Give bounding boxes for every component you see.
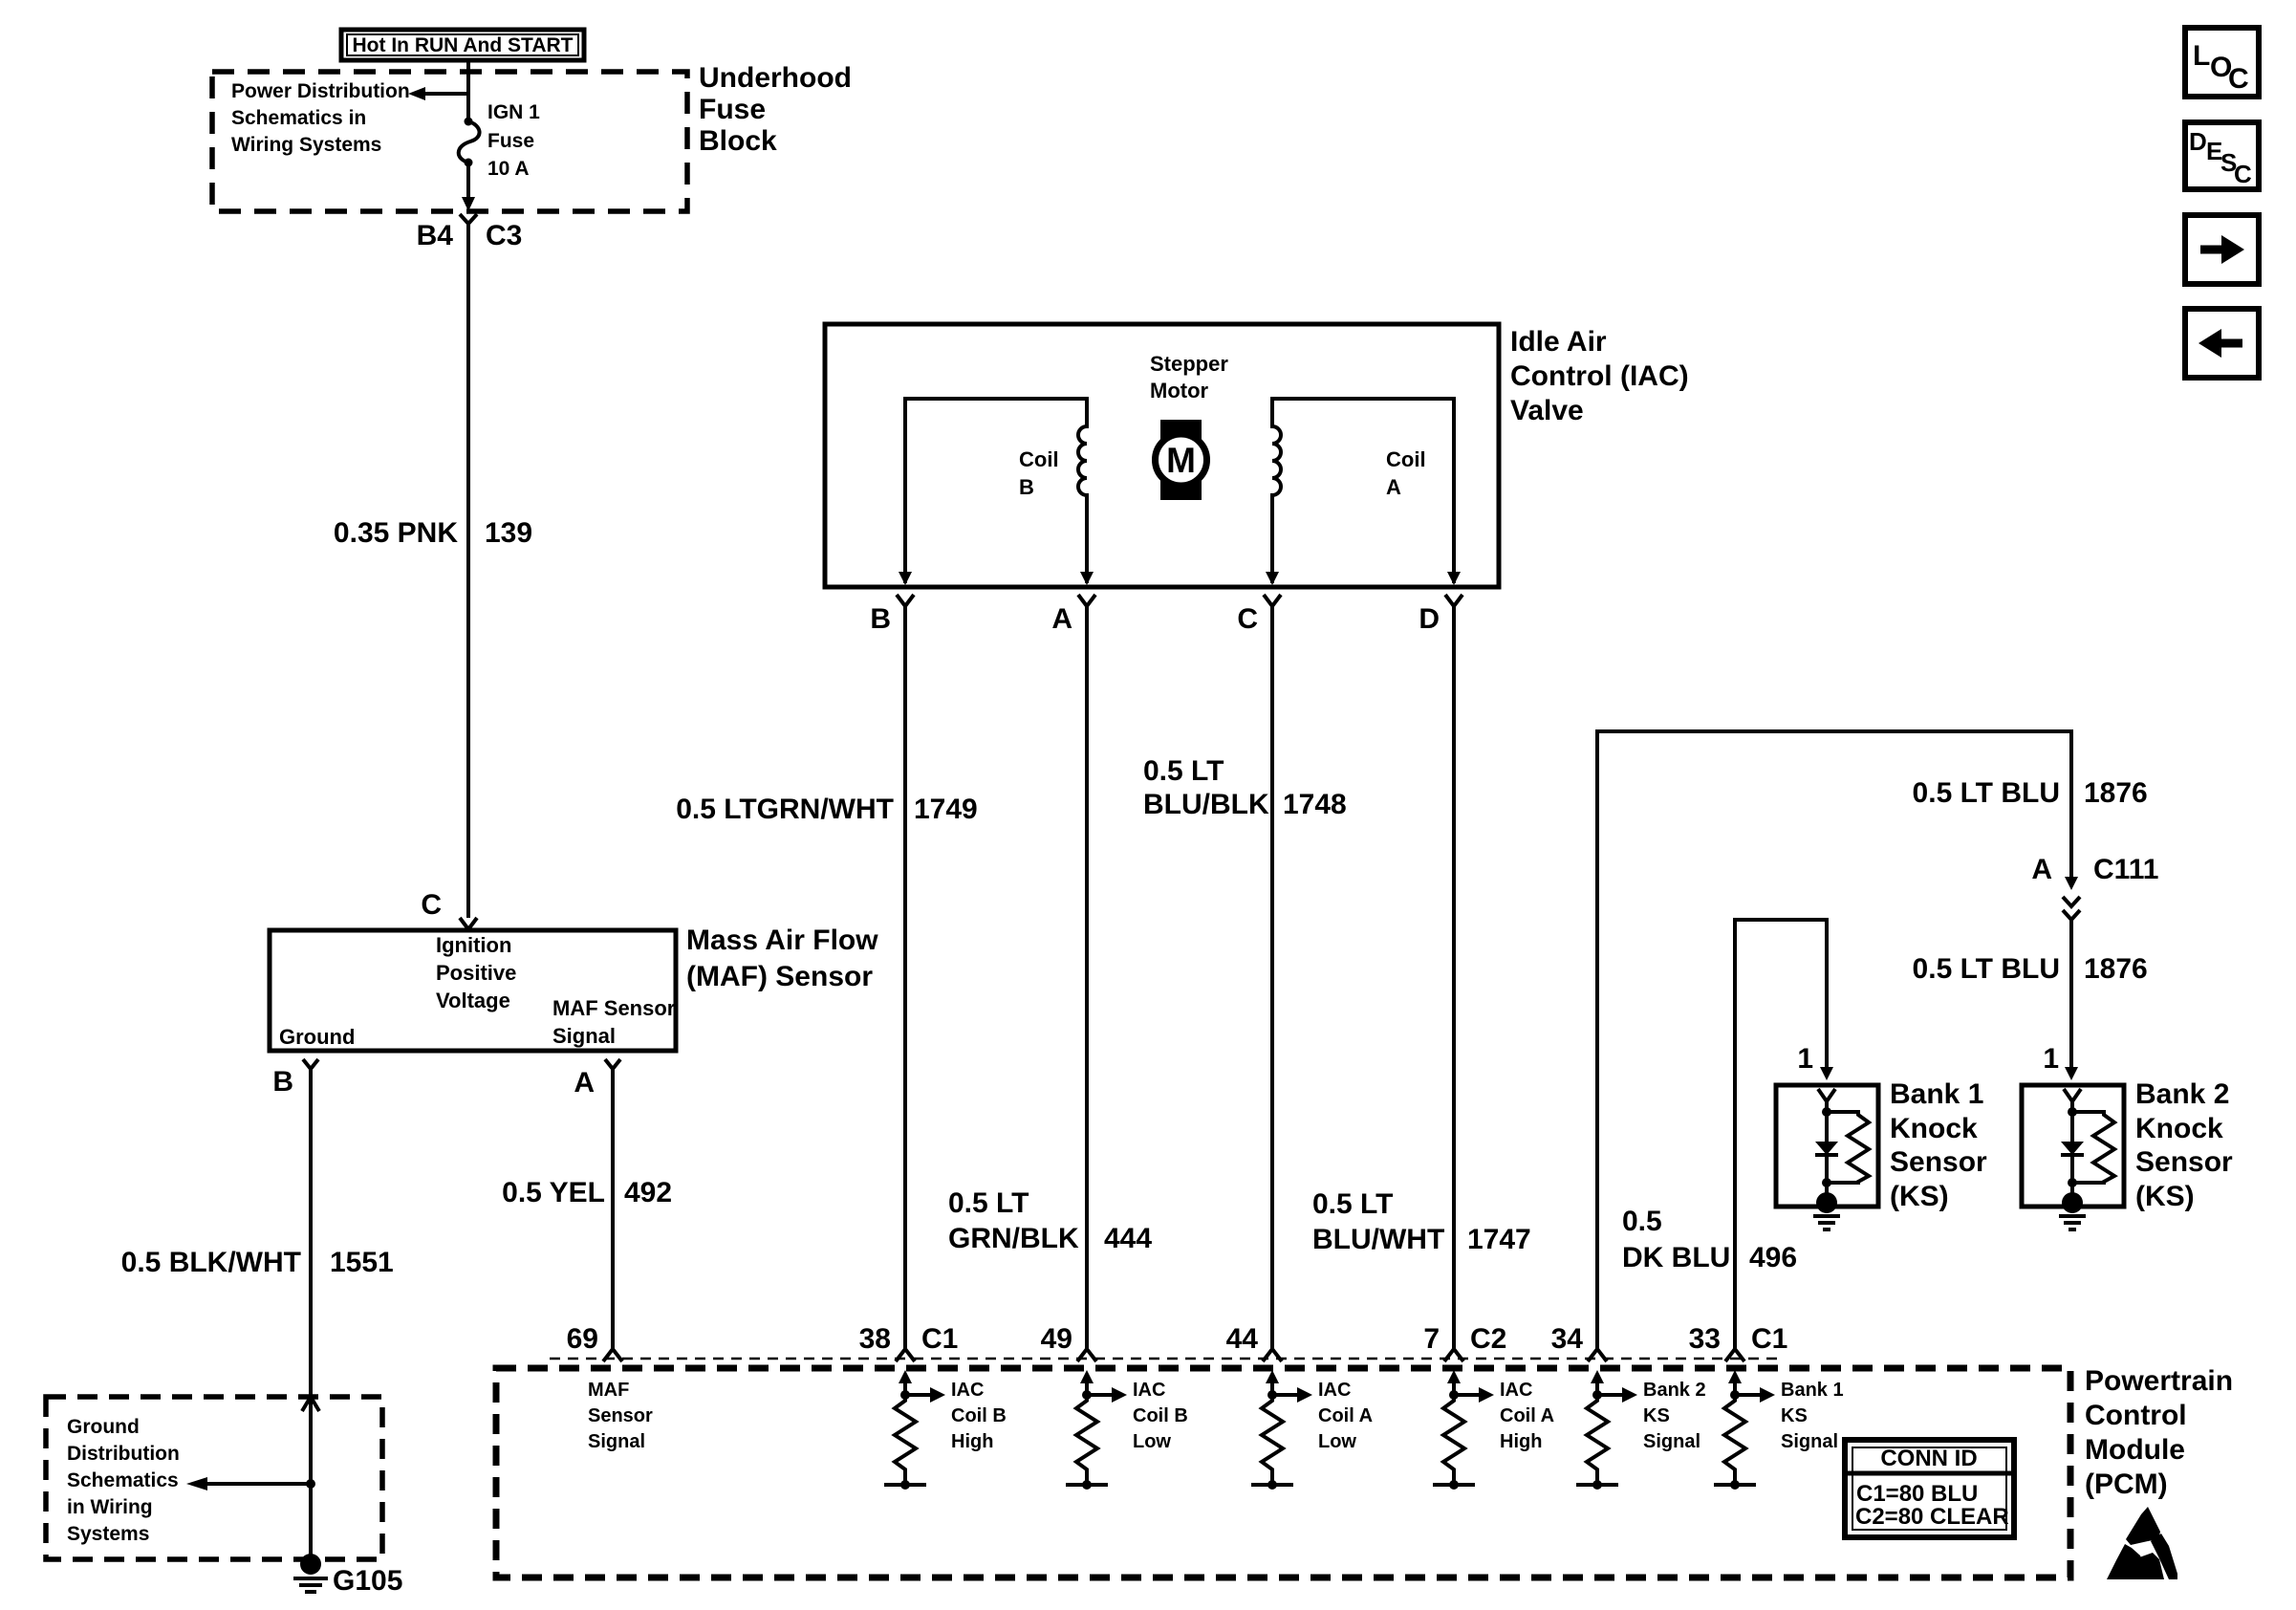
svg-text:Knock: Knock <box>1890 1113 1978 1144</box>
svg-text:MAF Sensor: MAF Sensor <box>552 996 676 1020</box>
IAC pin D connector <box>1419 595 1462 635</box>
MAF sensor box <box>270 925 878 1051</box>
IAC pin C connector <box>1237 595 1281 635</box>
svg-text:0.5 LTGRN/WHT: 0.5 LTGRN/WHT <box>676 794 894 825</box>
svg-text:49: 49 <box>1041 1323 1072 1355</box>
svg-text:C1: C1 <box>1751 1323 1787 1355</box>
PCM resistor at pin IAC Coil B Low <box>1066 1370 1188 1490</box>
svg-text:1749: 1749 <box>914 794 978 825</box>
svg-text:Powertrain: Powertrain <box>2085 1365 2233 1397</box>
svg-text:0.5: 0.5 <box>1622 1206 1662 1237</box>
svg-text:C2: C2 <box>1470 1323 1506 1355</box>
svg-text:Module: Module <box>2085 1434 2185 1466</box>
svg-text:Schematics: Schematics <box>67 1469 179 1491</box>
wire fuse to connector B4/C3 <box>462 163 475 211</box>
wire 0.5 BLK/WHT 1551 <box>121 1069 394 1559</box>
wire IAC D to PCM 0.5 LT BLU/WHT 1747 <box>1312 606 1531 1349</box>
svg-text:High: High <box>1500 1431 1542 1452</box>
svg-text:(KS): (KS) <box>2135 1181 2195 1212</box>
svg-text:1747: 1747 <box>1467 1224 1531 1255</box>
svg-text:Bank 1: Bank 1 <box>1781 1380 1844 1401</box>
svg-text:0.5 YEL: 0.5 YEL <box>502 1177 605 1208</box>
DESC button <box>2185 122 2259 189</box>
svg-text:Coil A: Coil A <box>1318 1405 1373 1426</box>
svg-text:D: D <box>1419 603 1440 635</box>
svg-text:38: 38 <box>859 1323 891 1355</box>
fuse IGN 1 10 A <box>459 101 540 180</box>
wire C111 to Bank2 KS 0.5 LT BLU 1876 <box>1913 920 2148 1080</box>
MAF pin A connector <box>574 1059 620 1099</box>
svg-text:Bank 1: Bank 1 <box>1890 1078 1983 1110</box>
PCM MAF Sensor Signal label <box>588 1380 653 1452</box>
wire 0.5 YEL 492 <box>502 1069 672 1349</box>
svg-text:(KS): (KS) <box>1890 1181 1949 1212</box>
coil B <box>899 399 1094 585</box>
svg-text:Bank 2: Bank 2 <box>1643 1380 1706 1401</box>
svg-text:496: 496 <box>1749 1242 1797 1273</box>
svg-text:Hot In RUN And START: Hot In RUN And START <box>353 34 574 56</box>
svg-text:44: 44 <box>1226 1323 1259 1355</box>
svg-text:Signal: Signal <box>1643 1431 1700 1452</box>
svg-text:IAC: IAC <box>1500 1380 1532 1401</box>
svg-text:Systems: Systems <box>67 1523 149 1545</box>
svg-text:BLU/WHT: BLU/WHT <box>1312 1224 1444 1255</box>
svg-text:1: 1 <box>1797 1043 1813 1075</box>
svg-text:0.35 PNK: 0.35 PNK <box>334 517 458 549</box>
svg-text:(PCM): (PCM) <box>2085 1469 2168 1500</box>
svg-text:DK BLU: DK BLU <box>1622 1242 1730 1273</box>
svg-text:Low: Low <box>1133 1431 1171 1452</box>
svg-text:Ignition: Ignition <box>436 933 511 957</box>
wire label 0.5 LT BLU 1876 upper <box>1913 777 2148 809</box>
svg-text:A: A <box>2031 854 2052 885</box>
svg-text:Knock: Knock <box>2135 1113 2223 1144</box>
svg-text:High: High <box>951 1431 993 1452</box>
Bank 1 Knock Sensor (KS) <box>1776 1043 1987 1229</box>
svg-text:Voltage: Voltage <box>436 989 510 1012</box>
svg-text:A: A <box>1051 603 1072 635</box>
svg-text:Ground: Ground <box>67 1416 140 1438</box>
svg-text:444: 444 <box>1104 1223 1152 1254</box>
IAC valve box <box>825 324 1689 587</box>
svg-text:MAF: MAF <box>588 1380 629 1401</box>
svg-text:Underhood: Underhood <box>699 62 852 94</box>
svg-text:KS: KS <box>1781 1405 1808 1426</box>
connector C at MAF sensor <box>421 889 477 929</box>
svg-text:C: C <box>421 889 442 921</box>
svg-text:1748: 1748 <box>1283 789 1347 820</box>
node Hot In RUN And START box <box>341 30 584 60</box>
svg-text:M: M <box>1166 441 1196 480</box>
PCM resistor at pin IAC Coil A High <box>1433 1370 1554 1490</box>
svg-text:GRN/BLK: GRN/BLK <box>948 1223 1079 1254</box>
diode inside KS1 <box>1815 1142 1838 1155</box>
PCM boundary <box>496 1365 2233 1577</box>
svg-text:69: 69 <box>567 1323 598 1355</box>
prev arrow button <box>2185 309 2259 378</box>
PCM resistor at pin Bank 1 KS Signal <box>1714 1370 1844 1490</box>
svg-text:C3: C3 <box>486 220 522 251</box>
CONN ID table <box>1845 1440 2014 1537</box>
resistor inside KS1 <box>1827 1112 1869 1183</box>
svg-text:KS: KS <box>1643 1405 1670 1426</box>
wire IAC C to PCM 0.5 LT BLU/BLK 1748 <box>1143 606 1347 1349</box>
svg-text:Positive: Positive <box>436 961 516 985</box>
svg-text:D: D <box>2189 127 2207 156</box>
PCM pin numbers <box>567 1323 1788 1355</box>
svg-text:Signal: Signal <box>1781 1431 1838 1452</box>
svg-text:IAC: IAC <box>1318 1380 1351 1401</box>
svg-text:Coil: Coil <box>1386 447 1426 471</box>
svg-text:Idle Air: Idle Air <box>1510 326 1607 358</box>
wire crossing into ground box <box>302 1397 319 1411</box>
svg-text:(MAF) Sensor: (MAF) Sensor <box>686 961 873 992</box>
svg-text:1: 1 <box>2043 1043 2059 1075</box>
ground at KS2 <box>2062 1192 2083 1213</box>
svg-text:139: 139 <box>485 517 532 549</box>
svg-text:1876: 1876 <box>2084 777 2148 809</box>
svg-text:Coil B: Coil B <box>1133 1405 1188 1426</box>
svg-text:0.5 BLK/WHT: 0.5 BLK/WHT <box>121 1247 301 1278</box>
svg-text:CONN ID: CONN ID <box>1880 1446 1977 1471</box>
svg-text:Motor: Motor <box>1150 379 1209 402</box>
svg-text:492: 492 <box>624 1177 672 1208</box>
svg-text:Sensor: Sensor <box>2135 1146 2233 1178</box>
svg-text:0.5 LT BLU: 0.5 LT BLU <box>1913 777 2060 809</box>
svg-text:0.5 LT BLU: 0.5 LT BLU <box>1913 953 2060 985</box>
node Power Distribution reference <box>231 80 410 156</box>
svg-text:C: C <box>2234 160 2252 188</box>
svg-text:7: 7 <box>1423 1323 1440 1355</box>
wire KS top run <box>1597 731 2071 1349</box>
wire from Hot In RUN to fuse <box>466 60 470 121</box>
svg-text:Fuse: Fuse <box>699 94 766 125</box>
svg-text:0.5 LT: 0.5 LT <box>948 1187 1029 1219</box>
svg-text:B: B <box>1019 475 1034 499</box>
IAC pin B connector <box>870 595 914 635</box>
svg-text:A: A <box>574 1067 595 1099</box>
svg-text:Bank 2: Bank 2 <box>2135 1078 2229 1110</box>
svg-text:Coil A: Coil A <box>1500 1405 1554 1426</box>
svg-text:L: L <box>2193 40 2210 72</box>
svg-text:33: 33 <box>1689 1323 1721 1355</box>
svg-text:BLU/BLK: BLU/BLK <box>1143 789 1269 820</box>
svg-text:C: C <box>1237 603 1258 635</box>
PCM connector thin dashed line <box>550 1358 1784 1360</box>
svg-text:Valve: Valve <box>1510 395 1584 426</box>
svg-text:Signal: Signal <box>588 1431 645 1452</box>
svg-text:Ground: Ground <box>279 1025 355 1049</box>
svg-text:B: B <box>272 1066 293 1098</box>
ground distribution boundary <box>46 1397 382 1559</box>
svg-text:C111: C111 <box>2093 854 2158 885</box>
svg-text:Distribution: Distribution <box>67 1443 180 1465</box>
svg-text:Wiring Systems: Wiring Systems <box>231 134 381 156</box>
ground branch arrow <box>186 1477 315 1490</box>
stepper motor M <box>1156 420 1207 500</box>
connector B4/C3 <box>417 214 523 251</box>
connector C111 pin A <box>2031 854 2158 920</box>
svg-text:C: C <box>2228 63 2249 95</box>
svg-text:Power Distribution: Power Distribution <box>231 80 410 102</box>
PCM resistor at pin IAC Coil A Low <box>1251 1370 1373 1490</box>
svg-text:C2=80 CLEAR: C2=80 CLEAR <box>1855 1504 2009 1530</box>
svg-text:Stepper: Stepper <box>1150 352 1228 376</box>
svg-text:G105: G105 <box>333 1565 402 1597</box>
wire 0.35 PNK 139 <box>334 224 532 918</box>
resistor inside KS2 <box>2072 1112 2114 1183</box>
PCM resistor at pin Bank 2 KS Signal <box>1576 1370 1706 1490</box>
svg-text:Schematics in: Schematics in <box>231 107 366 129</box>
svg-text:in Wiring: in Wiring <box>67 1496 153 1518</box>
svg-text:Coil: Coil <box>1019 447 1059 471</box>
svg-text:A: A <box>1386 475 1401 499</box>
svg-text:Signal: Signal <box>552 1024 616 1048</box>
svg-text:1876: 1876 <box>2084 953 2148 985</box>
svg-text:IAC: IAC <box>1133 1380 1165 1401</box>
MAF pin B connector <box>272 1059 318 1098</box>
ESD sensitivity symbol <box>2107 1507 2177 1579</box>
svg-text:B4: B4 <box>417 220 454 251</box>
svg-text:0.5 LT: 0.5 LT <box>1143 755 1224 787</box>
svg-text:1551: 1551 <box>330 1247 394 1278</box>
svg-text:C1: C1 <box>921 1323 958 1355</box>
underhood fuse block boundary <box>212 62 852 211</box>
wire IAC A to PCM 0.5 LT GRN/BLK 444 <box>948 606 1152 1349</box>
Bank 2 Knock Sensor (KS) <box>2022 1043 2233 1229</box>
svg-text:Control: Control <box>2085 1400 2187 1431</box>
svg-text:B: B <box>870 603 891 635</box>
svg-text:Sensor: Sensor <box>1890 1146 1987 1178</box>
wire branch to power distribution arrow <box>408 87 468 100</box>
svg-text:Mass Air Flow: Mass Air Flow <box>686 925 878 956</box>
svg-text:Low: Low <box>1318 1431 1356 1452</box>
PCM entry connectors <box>603 1349 1744 1361</box>
wire IAC B to PCM 0.5 LTGRN/WHT 1749 <box>676 606 978 1349</box>
ground G105 <box>293 1554 402 1597</box>
svg-text:IAC: IAC <box>951 1380 984 1401</box>
ground at KS1 <box>1816 1192 1837 1213</box>
diode inside KS2 <box>2061 1142 2084 1155</box>
svg-text:IGN 1: IGN 1 <box>487 101 540 123</box>
stepper motor label <box>1150 352 1228 402</box>
svg-text:34: 34 <box>1551 1323 1584 1355</box>
svg-text:10 A: 10 A <box>487 158 530 180</box>
svg-text:0.5 LT: 0.5 LT <box>1312 1188 1393 1220</box>
svg-text:Coil B: Coil B <box>951 1405 1007 1426</box>
svg-text:Block: Block <box>699 125 777 157</box>
coil A <box>1266 399 1461 585</box>
svg-text:C1=80 BLU: C1=80 BLU <box>1856 1481 1978 1507</box>
wire Bank1 KS branch 0.5 DK BLU 496 <box>1622 920 1833 1349</box>
svg-text:Sensor: Sensor <box>588 1405 653 1426</box>
svg-text:Control (IAC): Control (IAC) <box>1510 360 1689 392</box>
svg-text:Fuse: Fuse <box>487 130 534 152</box>
next arrow button <box>2185 215 2259 284</box>
LOC button <box>2185 28 2259 97</box>
IAC pin A connector <box>1051 595 1095 635</box>
PCM resistor at pin IAC Coil B High <box>884 1370 1007 1490</box>
